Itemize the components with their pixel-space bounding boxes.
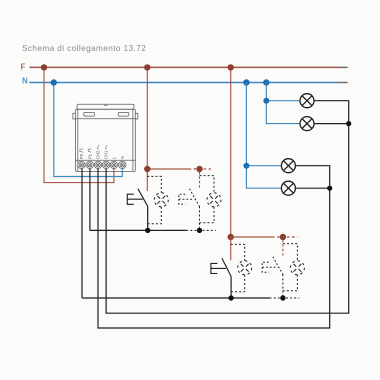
pushbutton S1b lever dashed bbox=[190, 189, 200, 207]
wire F bus bbox=[29, 66, 340, 68]
node group1 F dot1 bbox=[144, 166, 150, 172]
pushbutton S1 lever bbox=[138, 189, 148, 207]
terminal P1 screw bbox=[86, 161, 93, 168]
wire group2 return bus bbox=[82, 297, 270, 299]
node group1 F dot2 bbox=[196, 166, 202, 172]
terminal labels bbox=[79, 145, 125, 159]
node group1 return dot2 bbox=[197, 228, 202, 233]
label terminal CH1 bbox=[104, 145, 109, 159]
pushbutton S2 lever bbox=[222, 258, 231, 276]
wire P1 to group1 return bbox=[89, 169, 91, 231]
node N-lampgroup2 junction bbox=[243, 79, 249, 85]
wire F branch group1 bbox=[147, 168, 188, 170]
wire N branch lamp L3 bbox=[246, 165, 281, 167]
wire CH2 to lamp pair 2 bbox=[98, 166, 330, 328]
svg-text:P2: P2 bbox=[79, 153, 84, 159]
lamp L2 bbox=[300, 117, 314, 131]
wire F branch group2 bbox=[231, 236, 272, 238]
wire group1 button2 feed dashed bbox=[199, 172, 201, 189]
wire group1 return extension dashed bbox=[186, 229, 216, 231]
wire S2b output dashed bbox=[282, 274, 284, 298]
node F-group2 junction bbox=[228, 64, 234, 70]
node group2 F dot1 bbox=[228, 234, 234, 240]
svg-text:CH2: CH2 bbox=[96, 150, 101, 159]
lamp L4 bbox=[281, 181, 295, 195]
lamp S2 indicator bbox=[238, 261, 252, 275]
pushbutton S1 actuator bbox=[127, 194, 143, 204]
module body bbox=[75, 109, 135, 171]
node F-group1 junction bbox=[144, 64, 150, 70]
wire N bus bbox=[29, 82, 337, 84]
wire lamp L4 return bbox=[295, 187, 329, 189]
svg-text:N: N bbox=[22, 77, 28, 86]
svg-text:P1: P1 bbox=[87, 153, 92, 159]
module ear left bbox=[73, 113, 76, 119]
svg-text:N: N bbox=[120, 156, 125, 159]
wire F branch group1 extension dashed bbox=[189, 168, 211, 170]
lamp S2 indicator loop bottom dashed bbox=[231, 275, 245, 292]
wire group2 button feed red bbox=[230, 237, 232, 260]
module terminal strip line bbox=[75, 159, 135, 161]
lamp S2b indicator bbox=[290, 261, 304, 275]
module inner wall left bbox=[77, 109, 79, 171]
wire F to pushbutton group 1 bbox=[146, 67, 148, 191]
wire F to pushbutton group 2 bbox=[230, 67, 232, 237]
lamp S1 indicator loop top dashed bbox=[147, 176, 161, 192]
module ear right bbox=[135, 113, 138, 119]
wire N feed lamp pair 1 bbox=[266, 83, 300, 124]
wire N bus end bbox=[337, 82, 348, 84]
terminal CH2 screw bbox=[94, 161, 101, 168]
lamp S1 indicator loop bottom dashed bbox=[148, 207, 162, 224]
wire S1b output dashed bbox=[199, 206, 201, 230]
pushbutton S2 actuator bbox=[211, 263, 226, 273]
node lamp pair2 feed junction bbox=[243, 163, 249, 169]
lamp S2b indicator loop bottom dashed bbox=[283, 275, 298, 291]
terminals bbox=[78, 161, 126, 168]
wire F bus end bbox=[340, 66, 348, 68]
lamp L1 bbox=[300, 94, 314, 108]
module inner wall right bbox=[132, 109, 134, 171]
lamp S1b indicator bbox=[207, 193, 221, 207]
node group2 return dot1 bbox=[228, 295, 233, 300]
wire group1 return bus bbox=[90, 229, 186, 231]
node group2 F dot2 bbox=[280, 234, 286, 240]
module clip left bbox=[84, 112, 95, 116]
node group2 return dot2 bbox=[280, 295, 285, 300]
wire S1 output bbox=[147, 206, 149, 230]
wire group2 return extension dashed bbox=[270, 297, 300, 299]
node lamp pair2 return junction bbox=[327, 186, 332, 191]
module cap notch bbox=[104, 104, 107, 106]
wire S2 output bbox=[230, 276, 232, 298]
label terminal P2 bbox=[79, 148, 84, 159]
lamp L3 bbox=[281, 159, 295, 173]
label terminal CH2 bbox=[96, 145, 101, 159]
terminal P2 screw bbox=[78, 161, 85, 168]
node N-lampgroup1 junction bbox=[263, 79, 269, 85]
pushbutton S2b actuator dashed bbox=[262, 262, 277, 272]
label terminal P1 bbox=[87, 148, 92, 159]
lamp S1b indicator loop bottom dashed bbox=[200, 207, 215, 223]
wire N branch lamp L1 bbox=[266, 100, 300, 102]
node group1 return dot1 bbox=[145, 228, 150, 233]
node F-L junction bbox=[41, 64, 47, 70]
terminal L screw bbox=[110, 161, 117, 168]
wire CH1 to lamp pair 1 bbox=[106, 101, 349, 314]
svg-text:CH1: CH1 bbox=[104, 150, 109, 159]
wire N to terminal N bbox=[54, 83, 123, 177]
svg-text:Schema di collegamento 13.72: Schema di collegamento 13.72 bbox=[22, 44, 146, 53]
terminal N screw bbox=[119, 161, 126, 168]
node lamp pair1 return junction bbox=[346, 121, 351, 126]
wire F to terminal L bbox=[44, 67, 114, 182]
module seam bbox=[75, 118, 135, 120]
module top cap bbox=[77, 104, 134, 109]
wire N feed lamp pair 2 bbox=[246, 83, 281, 189]
lamp S2 indicator loop top dashed bbox=[231, 244, 245, 260]
lamp S1b indicator loop top dashed bbox=[200, 176, 215, 193]
node lamp pair1 feed junction bbox=[263, 98, 269, 104]
wire P2 to group2 return bbox=[81, 169, 83, 298]
wire lamp L2 return bbox=[314, 123, 349, 125]
wire group2 button2 feed dashed bbox=[282, 240, 284, 257]
module clip right bbox=[118, 112, 129, 116]
lamp S2b indicator loop top dashed bbox=[283, 244, 298, 261]
wire F branch group2 extension dashed bbox=[272, 236, 297, 238]
terminal CH1 screw bbox=[102, 161, 109, 168]
pushbutton S2b lever dashed bbox=[273, 257, 283, 275]
pushbutton S1b actuator dashed bbox=[179, 194, 194, 204]
node N-N junction bbox=[51, 79, 57, 85]
relay module 13.72 bbox=[73, 104, 138, 171]
lamp S1 indicator bbox=[154, 193, 168, 207]
svg-text:F: F bbox=[21, 62, 26, 71]
